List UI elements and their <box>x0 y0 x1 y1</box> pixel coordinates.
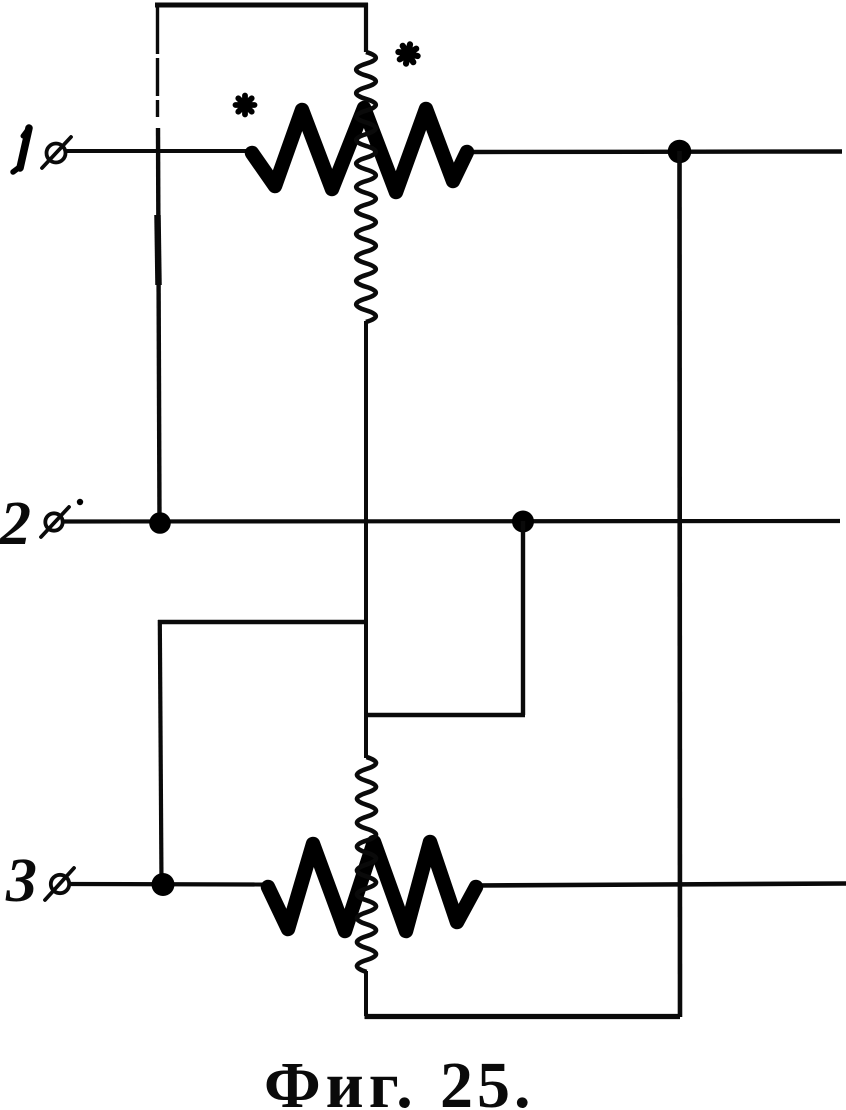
wire: bottom return bus <box>365 1014 681 1019</box>
label: phase 1 <box>13 128 29 172</box>
junction dot: phase-3 / left branch <box>152 873 175 896</box>
wire: center riser top stub <box>364 3 368 52</box>
winding L1: thick zigzag on phase 1 <box>252 108 467 192</box>
winding L2: vertical coil (upper section) <box>356 52 376 322</box>
wire: tap branch vertical (from phase-2 dot down) <box>521 521 525 715</box>
wire: top bus (left riser to center coil) <box>155 3 368 8</box>
terminal symbol: phase 1 circle with slash <box>42 137 71 168</box>
polarity mark: asterisk left (winding L1) <box>236 96 255 115</box>
svg-text:3: 3 <box>5 847 37 915</box>
ink speck near terminal 2 <box>77 499 83 505</box>
svg-text:25.: 25. <box>440 1049 535 1110</box>
svg-text:2: 2 <box>0 490 31 558</box>
polarity mark: asterisk right (winding L2) <box>398 44 417 63</box>
junction dot: phase-2 / left riser <box>149 512 171 534</box>
wire: center riser middle section <box>364 321 368 758</box>
wire: right vertical riser <box>677 151 682 1017</box>
wire: left branch vertical (down to phase 3) <box>160 620 162 884</box>
wire: left branch horizontal (center riser to left column) <box>158 620 368 625</box>
terminal symbol: phase 3 circle with slash <box>45 868 74 900</box>
terminal symbol: phase 2 circle with slash <box>41 507 69 537</box>
wire: phase-2 line <box>62 519 840 524</box>
wire: phase-1 line (right segment) <box>466 149 842 154</box>
wire: phase-1 line (left segment) <box>66 149 254 153</box>
junction dot: phase-2 / tap branch <box>512 511 534 533</box>
svg-text:Фиг.: Фиг. <box>264 1049 418 1110</box>
wire: tap branch horizontal (to center riser) <box>365 713 525 718</box>
junction dot: phase-1 line / right riser <box>668 140 692 164</box>
winding L2: vertical coil (lower section) <box>357 757 376 972</box>
wire: phase-3 line (left segment) <box>69 882 270 887</box>
winding L3: thick zigzag on phase 3 <box>268 842 476 931</box>
wire: phase-3 line (right segment) <box>474 884 846 886</box>
wire: left vertical riser <box>154 3 162 521</box>
wire: center riser bottom stub <box>364 971 368 1016</box>
